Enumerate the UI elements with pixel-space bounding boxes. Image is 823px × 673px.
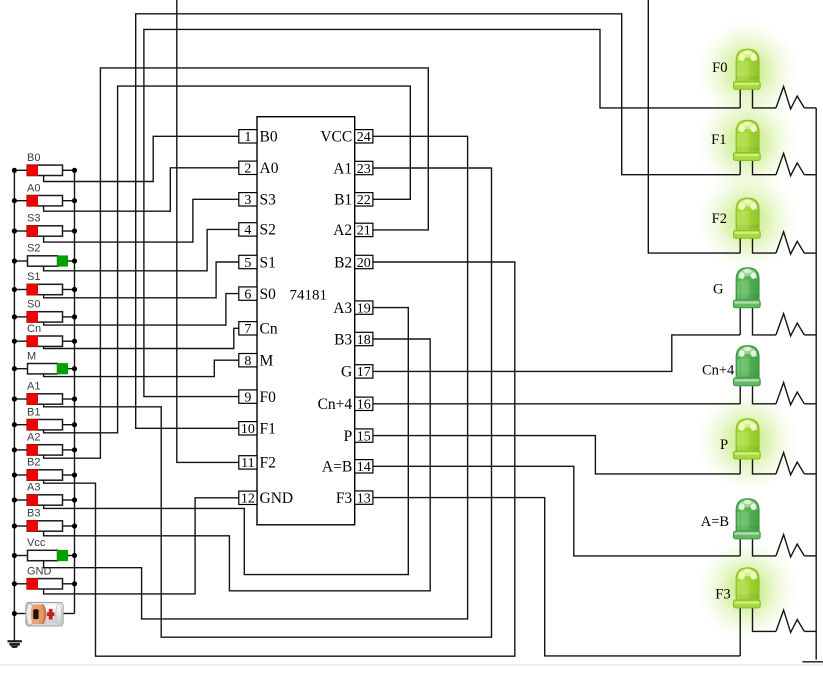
battery BT1 <box>26 602 63 626</box>
pin 20 (B2) <box>334 254 373 271</box>
svg-text:15: 15 <box>357 429 371 444</box>
svg-text:A=B: A=B <box>322 459 352 476</box>
switch B3 <box>12 508 77 532</box>
junction: battery negative to left rail <box>12 611 17 616</box>
svg-text:S2: S2 <box>260 222 276 239</box>
svg-text:S0: S0 <box>260 286 277 303</box>
LED F1 <box>711 120 760 160</box>
wire net F1: IC pin 10 over top to LED F1 <box>136 14 741 429</box>
svg-text:Cn: Cn <box>260 321 278 338</box>
LED F2 leads <box>739 237 741 253</box>
LED P <box>720 419 760 459</box>
svg-text:8: 8 <box>244 354 251 369</box>
svg-text:GND: GND <box>260 490 294 507</box>
pin 24 (VCC) <box>320 129 373 146</box>
resistor R-Cn+4 <box>776 383 804 405</box>
svg-text:G: G <box>341 364 352 381</box>
pin 13 (F3) <box>336 490 373 507</box>
svg-text:F1: F1 <box>260 421 276 438</box>
wire net B3: switch B3 under IC to pin 18 <box>44 339 431 591</box>
svg-text:F1: F1 <box>711 132 726 148</box>
svg-text:B2: B2 <box>27 457 40 469</box>
svg-text:B2: B2 <box>334 254 352 271</box>
wire net S1: switch S1 to IC pin <box>44 262 239 298</box>
svg-text:S0: S0 <box>27 299 40 311</box>
LED G leads <box>739 307 741 335</box>
wire net S0: switch S0 to IC pin <box>44 294 239 326</box>
svg-text:6: 6 <box>244 287 251 302</box>
wire: right rail (battery + bus) <box>74 170 76 613</box>
svg-text:18: 18 <box>357 333 371 348</box>
pin 16 (Cn+4) <box>318 396 373 413</box>
svg-text:F3: F3 <box>336 490 353 507</box>
svg-text:16: 16 <box>357 398 371 413</box>
switch B2 <box>12 457 77 481</box>
wire net B0: switch B0 to IC pin <box>44 136 239 181</box>
pin 4 (S2) <box>239 222 276 239</box>
svg-text:A3: A3 <box>333 300 352 317</box>
wire net GND: switch GND to IC pin 12 <box>44 498 239 594</box>
resistor R-F0 <box>776 87 804 109</box>
resistor R-F1 <box>776 153 804 175</box>
svg-text:S3: S3 <box>260 192 277 209</box>
wire net F0: IC pin 9 over top to LED F0 <box>144 29 740 396</box>
pin 7 (Cn) <box>239 321 278 338</box>
svg-text:19: 19 <box>357 301 371 316</box>
svg-text:S3: S3 <box>27 213 40 225</box>
resistor R-G <box>776 314 804 336</box>
svg-text:S2: S2 <box>27 243 40 255</box>
pin 23 (A1) <box>333 160 373 177</box>
switch A3 <box>12 482 77 506</box>
wire net Cn: switch Cn to IC pin <box>44 328 239 348</box>
switch B0 <box>12 152 77 176</box>
svg-text:74181: 74181 <box>289 288 327 304</box>
wire: LED cathode rail (right) <box>815 108 817 660</box>
wire net S2: switch S2 to IC pin <box>44 229 239 270</box>
switch M <box>12 350 77 374</box>
pin 12 (GND) <box>239 490 293 507</box>
svg-text:1: 1 <box>244 130 251 145</box>
svg-text:5: 5 <box>244 256 251 271</box>
LED F0 <box>712 49 760 89</box>
wire net B2: switch B2 under IC to pin 20 <box>44 262 515 656</box>
wire net G: IC pin 17 to LED G <box>373 335 740 372</box>
wire net A2: switch A2 over IC to pin 21 <box>44 68 429 458</box>
wire net F3: IC pin 13 under to LED F3 <box>373 498 740 656</box>
wire net A=B: IC pin 14 to LED A=B <box>373 466 740 556</box>
ground symbol <box>8 641 22 648</box>
switch S0 <box>12 299 77 323</box>
glow of LED F3 <box>696 536 800 644</box>
svg-text:P: P <box>720 437 728 453</box>
svg-text:9: 9 <box>244 390 251 405</box>
svg-text:B0: B0 <box>260 129 278 146</box>
svg-text:B3: B3 <box>334 331 352 348</box>
LED F2 <box>712 198 761 238</box>
pin 15 (P) <box>344 428 373 445</box>
switch B1 <box>12 406 77 430</box>
wire net A1: switch A1 under IC to pin 23 <box>44 168 492 637</box>
pin 8 (M) <box>239 353 274 370</box>
svg-text:A2: A2 <box>333 222 352 239</box>
svg-text:20: 20 <box>357 256 371 271</box>
pin 10 (F1) <box>239 421 276 438</box>
pin 9 (F0) <box>239 389 276 406</box>
switch Vcc <box>12 537 77 561</box>
svg-text:F0: F0 <box>712 60 727 76</box>
wire: battery positive lead <box>63 613 75 615</box>
switch A2 <box>12 432 77 456</box>
pin 5 (S1) <box>239 254 276 271</box>
pin 21 (A2) <box>333 222 373 239</box>
LED Cn+4 leads <box>739 385 741 404</box>
wire: battery negative lead <box>14 613 26 615</box>
svg-text:17: 17 <box>357 365 371 380</box>
glow of LED F2 <box>696 166 800 274</box>
wire net Vcc: switch Vcc to IC pin 24 <box>44 136 468 619</box>
LED F3 leads <box>739 607 741 656</box>
pin 6 (S0) <box>239 286 276 303</box>
switch S1 <box>12 271 77 295</box>
svg-text:VCC: VCC <box>320 129 352 146</box>
wire net P: IC pin 15 to LED P <box>373 436 740 474</box>
wire net A0: switch A0 to IC pin <box>44 168 239 211</box>
svg-text:F2: F2 <box>712 211 727 227</box>
svg-text:B3: B3 <box>27 508 40 520</box>
resistor R-F2 <box>776 232 804 254</box>
wire net M: switch M to IC pin <box>44 360 239 376</box>
svg-text:24: 24 <box>357 130 371 145</box>
pin 2 (A0) <box>239 160 279 177</box>
svg-text:Cn+4: Cn+4 <box>702 363 735 379</box>
pin 18 (B3) <box>334 331 373 348</box>
LED G <box>713 268 760 308</box>
switch A0 <box>12 182 77 206</box>
pin 19 (A3) <box>333 300 373 317</box>
svg-text:11: 11 <box>241 456 254 471</box>
LED Cn+4 <box>702 346 760 386</box>
LED P leads <box>739 458 741 474</box>
LED F1 leads <box>739 160 741 175</box>
svg-text:Cn+4: Cn+4 <box>318 396 353 413</box>
svg-text:23: 23 <box>357 162 371 177</box>
svg-text:4: 4 <box>244 223 251 238</box>
svg-text:S1: S1 <box>260 254 276 271</box>
svg-text:14: 14 <box>357 460 371 475</box>
resistor R-P <box>776 453 804 475</box>
svg-text:7: 7 <box>244 322 251 337</box>
canvas bottom edge <box>0 664 823 666</box>
svg-text:2: 2 <box>244 162 251 177</box>
LED F3 <box>715 568 760 608</box>
svg-text:M: M <box>260 353 274 370</box>
svg-text:P: P <box>344 428 353 445</box>
svg-text:A1: A1 <box>27 381 40 393</box>
svg-text:A=B: A=B <box>701 514 729 530</box>
glow of LED P <box>696 387 800 495</box>
wire net B1: switch B1 over IC to pin 22 <box>44 86 411 433</box>
svg-text:F0: F0 <box>260 389 277 406</box>
switch Cn <box>12 323 77 347</box>
svg-text:B1: B1 <box>27 406 40 418</box>
glow of LED F1 <box>696 88 800 196</box>
IC U1 74181 ALU <box>257 117 355 525</box>
switch S2 <box>12 243 77 267</box>
svg-text:S1: S1 <box>27 271 40 283</box>
svg-text:B1: B1 <box>334 192 352 209</box>
wire net Cn+4: IC pin 16 to LED Cn+4 <box>373 403 740 405</box>
svg-text:F3: F3 <box>715 587 730 603</box>
svg-text:A0: A0 <box>260 160 279 177</box>
svg-text:A2: A2 <box>27 432 40 444</box>
svg-text:A1: A1 <box>333 160 352 177</box>
pin 17 (G) <box>341 364 373 381</box>
resistor R-F3 <box>776 610 804 632</box>
pin 3 (S3) <box>239 192 276 209</box>
wire net F2 (right part): from off-canvas down to LED F2 <box>648 0 740 253</box>
svg-text:10: 10 <box>241 422 255 437</box>
svg-text:G: G <box>713 282 724 298</box>
LED A=B <box>701 499 760 539</box>
resistor R-A=B <box>776 535 804 557</box>
pin 11 (F2) <box>239 455 276 472</box>
wire: left rail (battery - bus) <box>13 170 15 641</box>
switch A1 <box>12 381 77 405</box>
pin 1 (B0) <box>239 129 278 146</box>
LED F0 leads <box>739 88 741 108</box>
wire: bottom stub to canvas edge <box>802 661 823 663</box>
wire net F2 (left part): IC pin 11 up off-canvas <box>177 0 239 462</box>
svg-text:A3: A3 <box>27 482 40 494</box>
pin 22 (B1) <box>334 192 373 209</box>
svg-text:F2: F2 <box>260 455 276 472</box>
svg-text:Vcc: Vcc <box>27 537 46 549</box>
pin 14 (A=B) <box>322 459 373 476</box>
svg-text:Cn: Cn <box>27 323 41 335</box>
svg-text:B0: B0 <box>27 152 40 164</box>
glow of LED F0 <box>696 17 800 125</box>
svg-text:M: M <box>27 350 36 362</box>
LED A=B leads <box>739 538 741 556</box>
svg-text:3: 3 <box>244 193 251 208</box>
switch S3 <box>12 213 77 237</box>
svg-text:22: 22 <box>357 193 371 208</box>
switch GND <box>12 566 77 590</box>
svg-text:21: 21 <box>357 224 371 239</box>
svg-text:12: 12 <box>241 492 255 507</box>
wire net S3: switch S3 to IC pin <box>44 199 239 242</box>
svg-text:13: 13 <box>357 491 371 506</box>
wire net A3: switch A3 under IC to pin 19 <box>44 308 409 575</box>
svg-text:A0: A0 <box>27 182 40 194</box>
